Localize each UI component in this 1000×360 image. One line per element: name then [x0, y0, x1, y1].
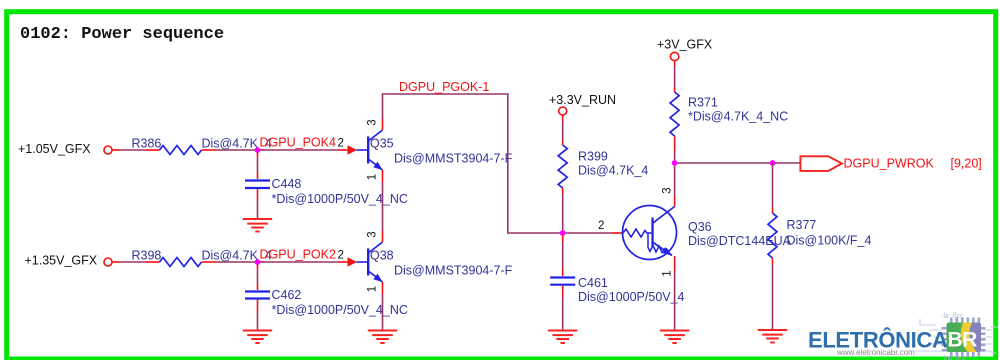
wire +3.3V_RUN to R399	[562, 121, 564, 141]
wire R386 to Q35 base / net DGPU_POK4	[216, 136, 339, 150]
svg-text:www.eletronicabr.com: www.eletronicabr.com	[836, 348, 915, 357]
junction node DGPU_POK2 / C462	[255, 259, 261, 265]
resistor R377	[768, 163, 871, 264]
wire rail DGPU_PWROK	[675, 162, 801, 164]
wire Q38 emitter to ground	[382, 294, 384, 331]
svg-text:+3V_GFX: +3V_GFX	[657, 38, 713, 52]
wire junction to Q36 base	[560, 232, 611, 234]
ground under C448	[243, 219, 272, 232]
ground under R377	[758, 330, 787, 343]
svg-text:Dis@1000P/50V_4: Dis@1000P/50V_4	[578, 290, 685, 304]
svg-text:R386: R386	[132, 136, 162, 150]
wire Q36 collector to rail	[674, 163, 676, 196]
transistor Q38	[357, 231, 513, 294]
svg-text:Dis@MMST3904-7-F: Dis@MMST3904-7-F	[394, 263, 513, 277]
power symbol +3V_GFX	[657, 38, 713, 67]
svg-text:DGPU_POK4: DGPU_POK4	[260, 136, 336, 150]
svg-text:C448: C448	[272, 177, 302, 191]
svg-text:R398: R398	[132, 248, 162, 262]
wire +1.35V_GFX to R398	[120, 261, 145, 263]
junction node R371 / Q36 collector / rail	[672, 160, 678, 166]
capacitor C448	[245, 152, 408, 219]
wire +1.05V_GFX to R386	[120, 149, 145, 151]
resistor R386	[132, 136, 272, 154]
svg-text:DGPU_POK2: DGPU_POK2	[260, 248, 336, 262]
resistor R371	[670, 88, 788, 151]
ground under C461	[548, 331, 577, 344]
svg-text:R377: R377	[787, 218, 817, 232]
junction node at R399 / C461 / Q36 base	[560, 230, 566, 236]
svg-text:*Dis@4.7K_4_NC: *Dis@4.7K_4_NC	[688, 110, 788, 124]
wire R398 to Q38 base / net DGPU_POK2	[216, 248, 339, 262]
svg-text:C461: C461	[578, 276, 608, 290]
transistor Q35	[357, 119, 513, 182]
wire Q36 emitter to ground	[674, 271, 676, 331]
power symbol +1.35V_GFX	[25, 254, 121, 268]
junction node DGPU_POK4 / C448	[255, 147, 261, 153]
capacitor C462	[245, 264, 408, 331]
svg-text:3: 3	[367, 231, 379, 237]
ground under C462	[243, 331, 272, 344]
power symbol +1.05V_GFX	[18, 142, 120, 156]
svg-text:1: 1	[662, 270, 674, 276]
wire R399 to junction	[562, 194, 564, 233]
wire Q35 emitter to Q38 collector	[382, 182, 384, 231]
svg-text:2: 2	[598, 220, 604, 232]
watermark logo ELETRONICA BR (decorative)	[808, 313, 998, 360]
pin 2 arrow into Q38 base	[338, 250, 358, 267]
offpage port DGPU_PWROK	[800, 156, 981, 171]
svg-text:Dis@MMST3904-7-F: Dis@MMST3904-7-F	[394, 151, 513, 165]
pin 2 arrow into Q35 base	[338, 138, 358, 155]
wire R377 to ground	[772, 264, 774, 330]
svg-text:Q35: Q35	[370, 136, 394, 150]
svg-text:2: 2	[338, 250, 344, 262]
svg-text:+3.3V_RUN: +3.3V_RUN	[549, 93, 616, 107]
svg-text:DGPU_PWROK: DGPU_PWROK	[844, 156, 935, 170]
ground under Q36	[660, 331, 689, 344]
svg-text:[9,20]: [9,20]	[951, 156, 982, 170]
svg-text:R399: R399	[578, 150, 608, 164]
capacitor C461	[550, 235, 684, 331]
junction node rail / R377	[770, 160, 776, 166]
svg-text:3: 3	[662, 187, 674, 193]
power symbol +3.3V_RUN	[549, 93, 616, 121]
svg-text:2: 2	[338, 138, 344, 150]
wire R371 to rail junction	[674, 151, 676, 165]
svg-text:3: 3	[367, 119, 379, 125]
svg-text:+1.05V_GFX: +1.05V_GFX	[18, 142, 91, 156]
wire +3V_GFX to R371	[674, 66, 676, 88]
svg-text:+1.35V_GFX: +1.35V_GFX	[25, 254, 98, 268]
svg-text:DGPU_PGOK-1: DGPU_PGOK-1	[399, 80, 489, 94]
svg-text:1: 1	[367, 174, 379, 180]
svg-text:C462: C462	[272, 288, 302, 302]
ground under Q38	[368, 331, 397, 344]
svg-text:Dis@100K/F_4: Dis@100K/F_4	[787, 234, 872, 248]
resistor R399	[558, 141, 648, 194]
svg-text:Dis@4.7K_4: Dis@4.7K_4	[578, 164, 648, 178]
svg-text:Q38: Q38	[370, 248, 394, 262]
svg-text:R371: R371	[688, 96, 718, 110]
svg-text:*Dis@1000P/50V_4_NC: *Dis@1000P/50V_4_NC	[272, 192, 408, 206]
svg-text:0102: Power sequence: 0102: Power sequence	[20, 25, 224, 44]
svg-text:1: 1	[367, 286, 379, 292]
svg-text:Q36: Q36	[688, 220, 712, 234]
svg-text:*Dis@1000P/50V_4_NC: *Dis@1000P/50V_4_NC	[272, 303, 408, 317]
svg-text:BR: BR	[948, 329, 978, 352]
resistor R398	[132, 248, 272, 266]
wire net DGPU_PGOK-1 (Q35 collector up, across, down to base rail)	[383, 80, 560, 233]
transistor Q36	[598, 187, 792, 276]
